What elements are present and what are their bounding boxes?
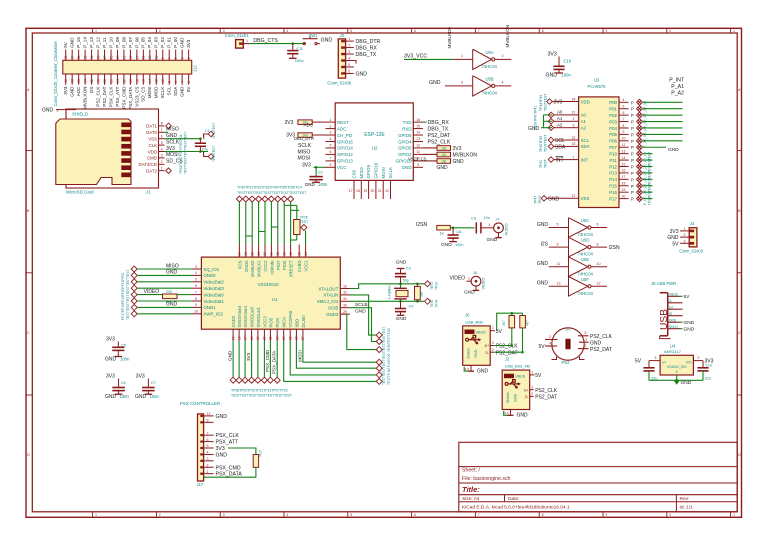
- svg-text:74HC04: 74HC04: [578, 232, 594, 237]
- svg-text:4: 4: [549, 342, 551, 346]
- svg-text:TESTTESTTEST: TESTTESTTEST: [382, 327, 386, 352]
- U2 pin 15 RXD: [413, 128, 423, 130]
- svg-text:3: 3: [684, 239, 686, 243]
- svg-text:4,5: 4,5: [465, 367, 470, 371]
- svg-text:TP47: TP47: [534, 196, 538, 204]
- svg-text:4: 4: [502, 81, 504, 85]
- svg-text:25: 25: [109, 55, 113, 59]
- U1 left pin 6 VideoDat3: [191, 287, 201, 289]
- svg-text:7: 7: [330, 157, 332, 161]
- U1 top pin 24 XCS: [238, 245, 240, 258]
- wire U1 top pin 2: [251, 202, 253, 245]
- svg-text:3V3: 3V3: [166, 146, 175, 152]
- wire GND to U1 GND1: [137, 306, 191, 308]
- svg-text:0: 0: [669, 513, 671, 517]
- svg-text:P_14: P_14: [83, 37, 88, 48]
- svg-text:U5C: U5C: [581, 218, 589, 223]
- svg-text:40: 40: [64, 79, 68, 83]
- wire P10 stub: [643, 153, 653, 155]
- wire U1 top pin 7: [283, 202, 285, 245]
- J12 pin bottom 12: [155, 74, 157, 85]
- J2 pin 3: [530, 389, 534, 391]
- U1 bottom pin 15 GND2: [232, 329, 234, 341]
- wire U1 top pin 0: [238, 202, 240, 245]
- svg-text:MISO: MISO: [166, 127, 179, 133]
- svg-text:19: 19: [129, 55, 133, 59]
- svg-text:3: 3: [181, 57, 185, 59]
- wire U1 top pin 5: [270, 202, 272, 245]
- svg-text:MVBLKD0: MVBLKD0: [447, 27, 452, 49]
- svg-text:GND: GND: [396, 316, 407, 322]
- svg-text:C5: C5: [121, 343, 126, 347]
- wire U1 top pin 3: [258, 202, 260, 245]
- J2 shield pin to GND: [510, 410, 512, 416]
- svg-text:15: 15: [297, 252, 301, 256]
- J12 pin bottom 6: [175, 74, 177, 85]
- svg-text:GND: GND: [42, 108, 54, 114]
- svg-text:17: 17: [622, 175, 626, 179]
- svg-text:REST: REST: [337, 120, 349, 125]
- svg-text:GND3: GND3: [326, 312, 339, 317]
- U1 left pin 7 VideoDat0: [191, 294, 201, 296]
- svg-text:A2: A2: [557, 122, 563, 127]
- wire P16 stub: [643, 191, 653, 193]
- svg-text:11: 11: [155, 56, 159, 60]
- J12 pin bottom 36: [78, 74, 80, 85]
- svg-text:7: 7: [168, 57, 172, 59]
- U1 bottom pin 25 VCSPAB: [289, 329, 291, 341]
- svg-text:9: 9: [606, 513, 608, 517]
- svg-text:TP08TP09TP10TP11TP13TP07TP23: TP08TP09TP10TP11TP13TP07TP23: [231, 389, 288, 393]
- U2 pin 16 TXD: [413, 121, 423, 123]
- MicroSD contact pad 4: [121, 144, 130, 149]
- resistor R4 pullup GPIO2: [437, 152, 451, 157]
- svg-text:MISO: MISO: [359, 167, 364, 179]
- resistor R17 PSX_DATA pullup: [228, 448, 256, 455]
- svg-text:3V3: 3V3: [554, 100, 563, 106]
- svg-text:C1: C1: [205, 129, 210, 133]
- svg-text:18: 18: [135, 79, 139, 83]
- svg-text:VIDEO: VIDEO: [144, 289, 160, 295]
- U1 top pin 18 PIO7: [277, 245, 279, 258]
- svg-text:TP42TP43: TP42TP43: [539, 136, 543, 152]
- svg-text:KiCad E.D.A. kicad 5.0.0+fee4: KiCad E.D.A. kicad 5.0.0+fee4fd188ubuntu…: [462, 505, 570, 511]
- svg-text:2: 2: [159, 29, 161, 33]
- svg-text:1: 1: [207, 470, 209, 474]
- svg-text:VideoDat1: VideoDat1: [203, 299, 224, 304]
- svg-text:P_09: P_09: [115, 37, 120, 48]
- svg-text:C: C: [27, 331, 30, 335]
- svg-text:PIO7: PIO7: [276, 260, 281, 270]
- U3 pin 21 A0: [569, 114, 579, 116]
- svg-text:TEST: TEST: [300, 220, 309, 224]
- capacitor C3 56p: [400, 277, 402, 284]
- svg-text:17: 17: [135, 55, 139, 59]
- capacitor C13 22u output: [702, 361, 704, 368]
- svg-text:P01: P01: [609, 107, 617, 112]
- svg-text:10: 10: [597, 262, 601, 266]
- svg-text:TEST: TEST: [648, 197, 652, 205]
- capacitor C12 22u input: [648, 361, 650, 368]
- svg-text:7: 7: [195, 290, 197, 294]
- IC U1 VS23S010 body: [201, 257, 340, 329]
- svg-text:Title:: Title:: [462, 485, 480, 494]
- svg-text:17: 17: [243, 336, 247, 340]
- svg-text:25: 25: [288, 336, 292, 340]
- svg-text:4K7: 4K7: [502, 320, 506, 326]
- svg-text:J9 USB PWR: J9 USB PWR: [651, 281, 676, 286]
- svg-text:P_06: P_06: [134, 37, 139, 48]
- svg-text:20: 20: [129, 79, 133, 83]
- wires U1 bottom to testpoints: [232, 341, 234, 377]
- svg-text:20: 20: [263, 252, 267, 256]
- J9 pin 6 SHLD: [668, 328, 680, 330]
- svg-text:6: 6: [330, 150, 332, 154]
- U2 pin 19 GPIO9: [368, 180, 370, 199]
- J12 pin top 39: [65, 50, 67, 61]
- capacitor C9 10u series: [475, 222, 477, 233]
- svg-text:PIO6: PIO6: [282, 260, 287, 270]
- svg-text:CVBD: CVBD: [297, 261, 302, 273]
- U2 pin 18 MISO: [360, 180, 362, 199]
- svg-text:MVBLKON: MVBLKON: [453, 152, 478, 158]
- svg-text:P: P: [631, 120, 634, 125]
- J2 pin 2: [530, 395, 534, 397]
- svg-text:1: 1: [585, 344, 587, 348]
- svg-text:SDA: SDA: [173, 86, 178, 96]
- svg-text:3: 3: [585, 338, 587, 342]
- svg-text:GPIO9: GPIO9: [366, 165, 371, 179]
- svg-text:22: 22: [250, 252, 254, 256]
- svg-text:GND: GND: [396, 260, 407, 266]
- svg-text:16: 16: [237, 336, 241, 340]
- svg-text:P07: P07: [609, 145, 617, 150]
- J12 pin top 33: [84, 50, 86, 61]
- no-connect diamond DAT1: [166, 123, 172, 129]
- J17 pin 9: [204, 421, 214, 423]
- svg-text:TEST: TEST: [430, 299, 434, 307]
- svg-text:TP34: TP34: [435, 299, 439, 307]
- svg-text:U3: U3: [594, 78, 600, 83]
- wire P14 stub: [643, 178, 653, 180]
- svg-text:ADC: ADC: [76, 86, 81, 96]
- svg-text:7: 7: [207, 431, 209, 435]
- svg-text:9: 9: [417, 163, 419, 167]
- svg-text:3V3: 3V3: [246, 352, 251, 361]
- svg-text:P_02: P_02: [160, 37, 165, 48]
- U1 bottom pin 22 PIO4: [276, 329, 278, 341]
- J12 pin top 31: [91, 50, 93, 61]
- svg-text:P_07: P_07: [128, 37, 133, 48]
- wire PS2_CLK J6: [494, 345, 512, 347]
- svg-text:16: 16: [142, 79, 146, 83]
- svg-text:C11: C11: [297, 47, 303, 51]
- wire XMCJ_IO3 to crystal bottom: [350, 300, 424, 302]
- svg-text:5V: 5V: [539, 344, 546, 350]
- U1 left pin 4 GND0: [191, 274, 201, 276]
- wire U1 bottom pin 12 bend: [303, 341, 376, 362]
- J12 pin top 23: [116, 50, 118, 61]
- J12 pin top 15: [142, 50, 144, 61]
- svg-text:U4: U4: [670, 344, 676, 349]
- svg-text:MVBLKON: MVBLKON: [83, 87, 88, 109]
- svg-text:PS2: PS2: [562, 360, 571, 365]
- J12 pin top 27: [104, 50, 106, 61]
- U2 pin 20 GPIO10: [375, 180, 377, 199]
- svg-text:A2: A2: [581, 126, 587, 131]
- U2 pin 1 REST: [326, 121, 336, 123]
- svg-text:5: 5: [330, 144, 332, 148]
- testpoint diamond crystal bottom: [425, 298, 431, 304]
- svg-text:P: P: [631, 113, 634, 118]
- crystal X1 4.43MHz: [400, 284, 402, 289]
- svg-text:Sheet: /: Sheet: /: [462, 468, 480, 474]
- svg-text:USB_B0D: USB_B0D: [465, 319, 483, 324]
- svg-text:6: 6: [414, 513, 416, 517]
- capacitor C2 100n: [315, 167, 317, 176]
- wire P15 stub: [643, 185, 653, 187]
- svg-text:8: 8: [623, 124, 625, 128]
- svg-text:DBG_TX: DBG_TX: [428, 127, 449, 133]
- wire VideoDat1: [137, 300, 191, 302]
- svg-text:1: 1: [246, 39, 248, 43]
- svg-text:4: 4: [348, 57, 350, 61]
- svg-text:GND: GND: [180, 37, 185, 48]
- wire PS2_DAT J6: [494, 351, 522, 353]
- svg-text:3: 3: [461, 81, 463, 85]
- svg-text:P04: P04: [609, 126, 617, 131]
- svg-text:23: 23: [244, 252, 248, 256]
- wire U1 top pin 6: [277, 202, 279, 245]
- svg-text:VideoDat0: VideoDat0: [203, 292, 224, 297]
- svg-text:10k: 10k: [441, 147, 447, 151]
- svg-text:34: 34: [84, 79, 88, 83]
- svg-text:20: 20: [371, 189, 375, 193]
- J2 VBUS bar: [504, 374, 514, 379]
- svg-text:4: 4: [623, 98, 625, 102]
- svg-text:GPIO5: GPIO5: [398, 133, 412, 138]
- U3 pin 9 P05: [619, 133, 629, 135]
- connector J1 MicroSD Card body: [66, 109, 159, 188]
- svg-text:DBG_RX: DBG_RX: [428, 120, 450, 126]
- svg-text:SCL: SCL: [555, 138, 565, 144]
- svg-text:PSX_DATA: PSX_DATA: [128, 86, 133, 110]
- svg-text:C6: C6: [121, 381, 126, 385]
- svg-text:TESTTESTTESTTEST: TESTTESTTESTTEST: [382, 351, 386, 385]
- svg-text:GPIO10: GPIO10: [374, 162, 379, 178]
- U4 input pin: [649, 360, 660, 362]
- svg-text:P_04: P_04: [147, 37, 152, 48]
- J6 VBUS bar: [465, 330, 475, 335]
- svg-text:A1: A1: [581, 119, 587, 124]
- J12 pin bottom 32: [91, 74, 93, 85]
- svg-text:31: 31: [343, 297, 347, 301]
- PS2 pin 4 5V: [545, 345, 557, 347]
- wire P01 net: [643, 108, 683, 110]
- svg-text:GND: GND: [135, 394, 147, 400]
- U1 top pin 17 PIO6: [283, 245, 285, 258]
- svg-text:J7: J7: [496, 218, 500, 222]
- svg-text:19: 19: [256, 336, 260, 340]
- svg-text:5: 5: [350, 513, 352, 517]
- svg-text:P: P: [631, 184, 634, 189]
- svg-text:MVBLK1: MVBLK1: [257, 260, 262, 277]
- wire U1 pin32 bend to testpoint: [350, 295, 376, 335]
- svg-text:PS2_CLK: PS2_CLK: [535, 388, 558, 394]
- J12 pin bottom 14: [149, 74, 151, 85]
- svg-text:R17: R17: [259, 450, 263, 456]
- wire 5V net J6 to pullups: [497, 313, 523, 331]
- svg-text:J17: J17: [197, 482, 204, 487]
- svg-text:P: P: [631, 158, 634, 163]
- svg-text:3: 3: [573, 124, 575, 128]
- svg-text:P_13: P_13: [89, 37, 94, 48]
- svg-text:VDD: VDD: [581, 99, 590, 104]
- label SCL at U3: [548, 137, 554, 143]
- svg-text:P06: P06: [609, 139, 617, 144]
- svg-text:VBUS: VBUS: [669, 293, 678, 297]
- wire U1 top pin 8: [290, 202, 292, 245]
- label 5V at J9: [680, 295, 683, 297]
- svg-text:GND2: GND2: [231, 315, 236, 327]
- svg-text:GND: GND: [441, 242, 452, 248]
- svg-text:4: 4: [207, 451, 209, 455]
- svg-text:5: 5: [161, 141, 163, 145]
- svg-text:PSX_CMD: PSX_CMD: [265, 349, 270, 372]
- svg-text:12: 12: [572, 194, 576, 198]
- U3 pin 6 P02: [619, 114, 629, 116]
- U1 bottom pin 21 PIO5: [269, 329, 271, 341]
- J17 pin 6: [204, 441, 214, 443]
- svg-text:TP33: TP33: [435, 282, 439, 290]
- svg-text:6: 6: [348, 69, 350, 73]
- J12 pin bottom 30: [97, 74, 99, 85]
- svg-text:1: 1: [532, 370, 534, 374]
- U3 pin 19 P16: [619, 191, 629, 193]
- svg-text:6: 6: [161, 135, 163, 139]
- J9 pin 4 ID: [668, 315, 680, 317]
- svg-text:PSX CONTROLLER: PSX CONTROLLER: [180, 401, 220, 406]
- svg-text:4: 4: [287, 513, 289, 517]
- svg-text:SDA: SDA: [581, 144, 590, 149]
- svg-text:CMD: CMD: [147, 156, 157, 161]
- J3 pin 4: [346, 60, 354, 62]
- U1 right pin 31 XMCJ_IO3: [340, 300, 350, 302]
- svg-text:C9: C9: [471, 217, 476, 221]
- U3 pin 23 SDA: [569, 145, 579, 147]
- U3 pin 2 A1: [569, 120, 579, 122]
- MicroSD contact pad 5: [121, 151, 130, 156]
- svg-text:TESTTESTTESTTESTTEST: TESTTESTTESTTESTTEST: [184, 132, 188, 174]
- svg-text:TP08TP07TP06TP05TP04: TP08TP07TP06TP05TP04: [179, 134, 183, 174]
- J12 pin bottom 8: [168, 74, 170, 85]
- U1 top pin 16 XRESET: [290, 245, 292, 258]
- svg-text:DBG_TX: DBG_TX: [356, 52, 377, 58]
- resistor R16 XRESET pullup: [294, 220, 300, 235]
- svg-text:19: 19: [270, 252, 274, 256]
- svg-text:8: 8: [542, 513, 544, 517]
- svg-text:XTALIN: XTALIN: [323, 293, 338, 298]
- svg-text:18: 18: [276, 252, 280, 256]
- svg-text:9: 9: [606, 29, 608, 33]
- svg-text:File: basicengine.sch: File: basicengine.sch: [462, 476, 511, 482]
- J12 pin bottom 2: [188, 74, 190, 85]
- svg-text:PIO4: PIO4: [275, 317, 280, 327]
- svg-text:2: 2: [492, 348, 494, 352]
- svg-text:U5E: U5E: [581, 257, 589, 262]
- svg-text:15: 15: [142, 55, 146, 59]
- wire P07 net to GND label: [643, 146, 666, 148]
- J3 pin 3: [346, 53, 354, 55]
- resistor R10 pullup PS2_CLK: [509, 316, 515, 328]
- J9 pin 1 VBUS: [668, 295, 680, 297]
- svg-text:P: P: [631, 171, 634, 176]
- svg-text:P: P: [631, 165, 634, 170]
- svg-text:2: 2: [159, 513, 161, 517]
- svg-text:SCLK: SCLK: [388, 167, 393, 179]
- svg-text:33: 33: [84, 55, 88, 59]
- wire U1 pin30 bend to testpoint: [350, 308, 376, 342]
- svg-text:3: 3: [531, 385, 533, 389]
- svg-text:3: 3: [655, 356, 657, 360]
- svg-text:GND: GND: [546, 73, 558, 79]
- svg-text:TP41: TP41: [539, 160, 543, 168]
- J6 shield pin to GND: [470, 365, 472, 371]
- wire XTALOUT to crystal: [350, 284, 424, 289]
- U3 pin 16 P13: [619, 172, 629, 174]
- svg-text:3: 3: [195, 265, 197, 269]
- svg-text:9: 9: [207, 419, 209, 423]
- svg-text:XMOSLat1: XMOSLat1: [256, 306, 261, 327]
- MicroSD contact pad 3: [121, 137, 130, 142]
- svg-text:1: 1: [461, 54, 463, 58]
- svg-text:P_00: P_00: [173, 37, 178, 48]
- svg-text:17: 17: [282, 252, 286, 256]
- svg-text:P13: P13: [609, 171, 617, 176]
- svg-text:P_05: P_05: [141, 37, 146, 48]
- svg-text:C: C: [738, 331, 741, 335]
- svg-text:2: 2: [698, 356, 700, 360]
- svg-text:7: 7: [478, 513, 480, 517]
- svg-text:DBG_DTR: DBG_DTR: [294, 136, 314, 141]
- svg-text:2: 2: [161, 160, 163, 164]
- U1 bottom pin 23 MICA: [283, 329, 285, 341]
- J1 pin 4 VDD: [159, 151, 165, 153]
- svg-text:GND: GND: [474, 349, 478, 358]
- svg-text:PS2_CLK: PS2_CLK: [496, 344, 519, 350]
- svg-text:24: 24: [572, 97, 576, 101]
- svg-text:5: 5: [557, 223, 559, 227]
- U1 top pin 14 VCC1: [305, 245, 307, 258]
- svg-text:5V: 5V: [672, 241, 679, 247]
- svg-text:2: 2: [187, 81, 191, 83]
- svg-text:GND: GND: [356, 71, 368, 77]
- svg-text:0: 0: [669, 29, 671, 33]
- svg-text:4K7: 4K7: [526, 320, 530, 326]
- svg-text:1: 1: [95, 29, 97, 33]
- svg-text:U2: U2: [372, 146, 378, 151]
- svg-text:6: 6: [207, 438, 209, 442]
- svg-text:GPIO14: GPIO14: [337, 146, 353, 151]
- MicroSD card shape: [56, 119, 131, 185]
- svg-text:SD_CS: SD_CS: [141, 87, 146, 102]
- svg-text:P10: P10: [609, 151, 617, 156]
- svg-text:6: 6: [597, 223, 599, 227]
- wire elbow to XRESET resistor: [284, 204, 297, 206]
- U3 pin 5 P01: [619, 108, 629, 110]
- svg-text:3: 3: [161, 154, 163, 158]
- svg-text:VS23S010: VS23S010: [258, 282, 280, 287]
